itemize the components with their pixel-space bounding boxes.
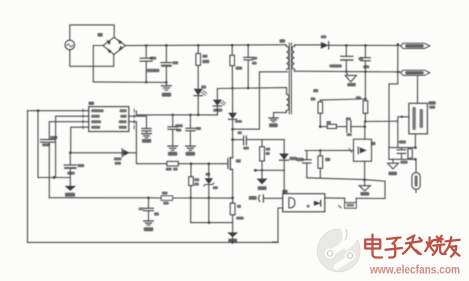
capacitor C19 — [397, 140, 407, 163]
wire primary return — [231, 72, 287, 134]
capacitor C16 — [346, 117, 352, 136]
capacitor C7 — [168, 115, 183, 146]
transistor Q2 — [114, 149, 130, 165]
wire aux feed — [217, 87, 286, 94]
watermark text dianzifashaoyou — [365, 235, 459, 258]
bridge rectifier B1 — [98, 33, 126, 55]
IC U1 — [83, 102, 134, 132]
ground GND4 — [186, 146, 196, 156]
wire bridge negative — [93, 46, 103, 82]
capacitor C15 — [139, 198, 159, 221]
wire AC bottom — [70, 50, 114, 67]
wire gate drive — [129, 122, 223, 165]
wire bank bottom — [389, 148, 416, 163]
resistor R12 — [230, 198, 244, 232]
capacitor C6 — [243, 136, 249, 150]
MOSFET Q1 — [222, 157, 240, 169]
svg-text:www.elecfans.com: www.elecfans.com — [369, 263, 460, 277]
wire U4 left pin — [398, 116, 409, 148]
wire pin2 — [56, 116, 89, 177]
wire opto input — [264, 197, 283, 199]
resistor R16 — [356, 72, 368, 122]
resistor R13 — [313, 89, 322, 128]
capacitor C4 — [161, 45, 178, 82]
resistor R15 — [326, 121, 336, 129]
wire ref — [305, 149, 354, 153]
wire U1 feedback rail — [136, 111, 217, 116]
wire snubber bottom — [254, 169, 284, 172]
connector J2 — [401, 70, 430, 75]
ground GND5 — [144, 221, 154, 231]
TL431 U2 — [354, 127, 376, 180]
capacitor C8 — [186, 115, 201, 146]
resistor R19 — [345, 198, 357, 208]
wire pin1 left — [28, 109, 89, 112]
resistor R10 — [166, 161, 178, 170]
resistor R2 — [230, 45, 242, 88]
wire drain — [232, 129, 234, 158]
wire negative out — [295, 70, 401, 73]
resistor R17 — [408, 149, 412, 158]
wire CS sense — [49, 196, 232, 199]
ground GND12 — [388, 163, 399, 175]
ground GND1 — [162, 82, 172, 96]
thermistor RT1 — [412, 159, 420, 192]
ground GND7 — [269, 118, 278, 127]
capacitor C12 — [41, 136, 58, 146]
wire divider tap — [320, 126, 365, 128]
wire U4 out — [414, 134, 417, 161]
connector J1 — [401, 43, 430, 48]
watermark logo — [317, 228, 360, 272]
ground GND11 — [359, 180, 370, 196]
ground GND6 — [65, 186, 76, 197]
wire outer loop — [28, 111, 279, 243]
resistor R1 — [196, 45, 209, 89]
wire J2 to U4 — [417, 76, 419, 103]
wire AC top — [70, 25, 114, 40]
resistor R6 — [260, 140, 271, 171]
diode D3 — [228, 88, 242, 129]
wire secondary top — [295, 44, 321, 46]
ground GND9 — [227, 232, 238, 243]
wire output sense drop — [389, 43, 399, 147]
capacitor C10 — [329, 45, 352, 71]
capacitor C3 — [140, 46, 159, 83]
wire negative rail — [93, 81, 167, 84]
ground GND8 — [257, 170, 268, 190]
ground GND2 — [142, 134, 152, 143]
capacitor C9 — [129, 116, 151, 133]
wire VDD node — [70, 152, 136, 154]
wire opto cathode — [273, 208, 283, 242]
IC U4 — [409, 101, 436, 134]
wire TL431 anode — [307, 178, 385, 181]
wire opto anode — [283, 170, 285, 193]
LED D1 — [194, 85, 207, 114]
wire clamp return — [191, 221, 233, 224]
wire bank top — [389, 147, 416, 149]
wire opto collector — [325, 181, 385, 208]
ground GND10 — [345, 72, 356, 87]
wire divider node — [364, 120, 398, 128]
wire positive out — [329, 44, 401, 47]
resistor R7 — [189, 164, 200, 223]
capacitor C20 — [249, 195, 264, 202]
wire source sense — [231, 169, 234, 203]
capacitor C14 — [296, 151, 311, 178]
resistor R14 — [318, 151, 330, 179]
capacitor C13 — [64, 153, 84, 186]
resistor R11 — [161, 192, 172, 205]
optocoupler U3 — [282, 190, 325, 212]
wire R13 feed — [311, 97, 366, 100]
wire snubber top — [231, 138, 284, 153]
zener D6 — [204, 164, 218, 223]
capacitor C5 — [244, 45, 257, 88]
LED D2 — [213, 89, 226, 115]
diode D5 — [321, 35, 329, 49]
capacitor C11 — [358, 45, 370, 71]
wire pin4 — [69, 127, 89, 154]
wire positive rail — [125, 44, 286, 47]
wire pin3 — [49, 122, 88, 198]
transformer T1 — [274, 39, 295, 118]
diode D4 — [279, 154, 297, 171]
wire VDD branch — [38, 111, 70, 179]
AC source G1 — [65, 40, 75, 50]
ground GND3 — [168, 146, 178, 156]
